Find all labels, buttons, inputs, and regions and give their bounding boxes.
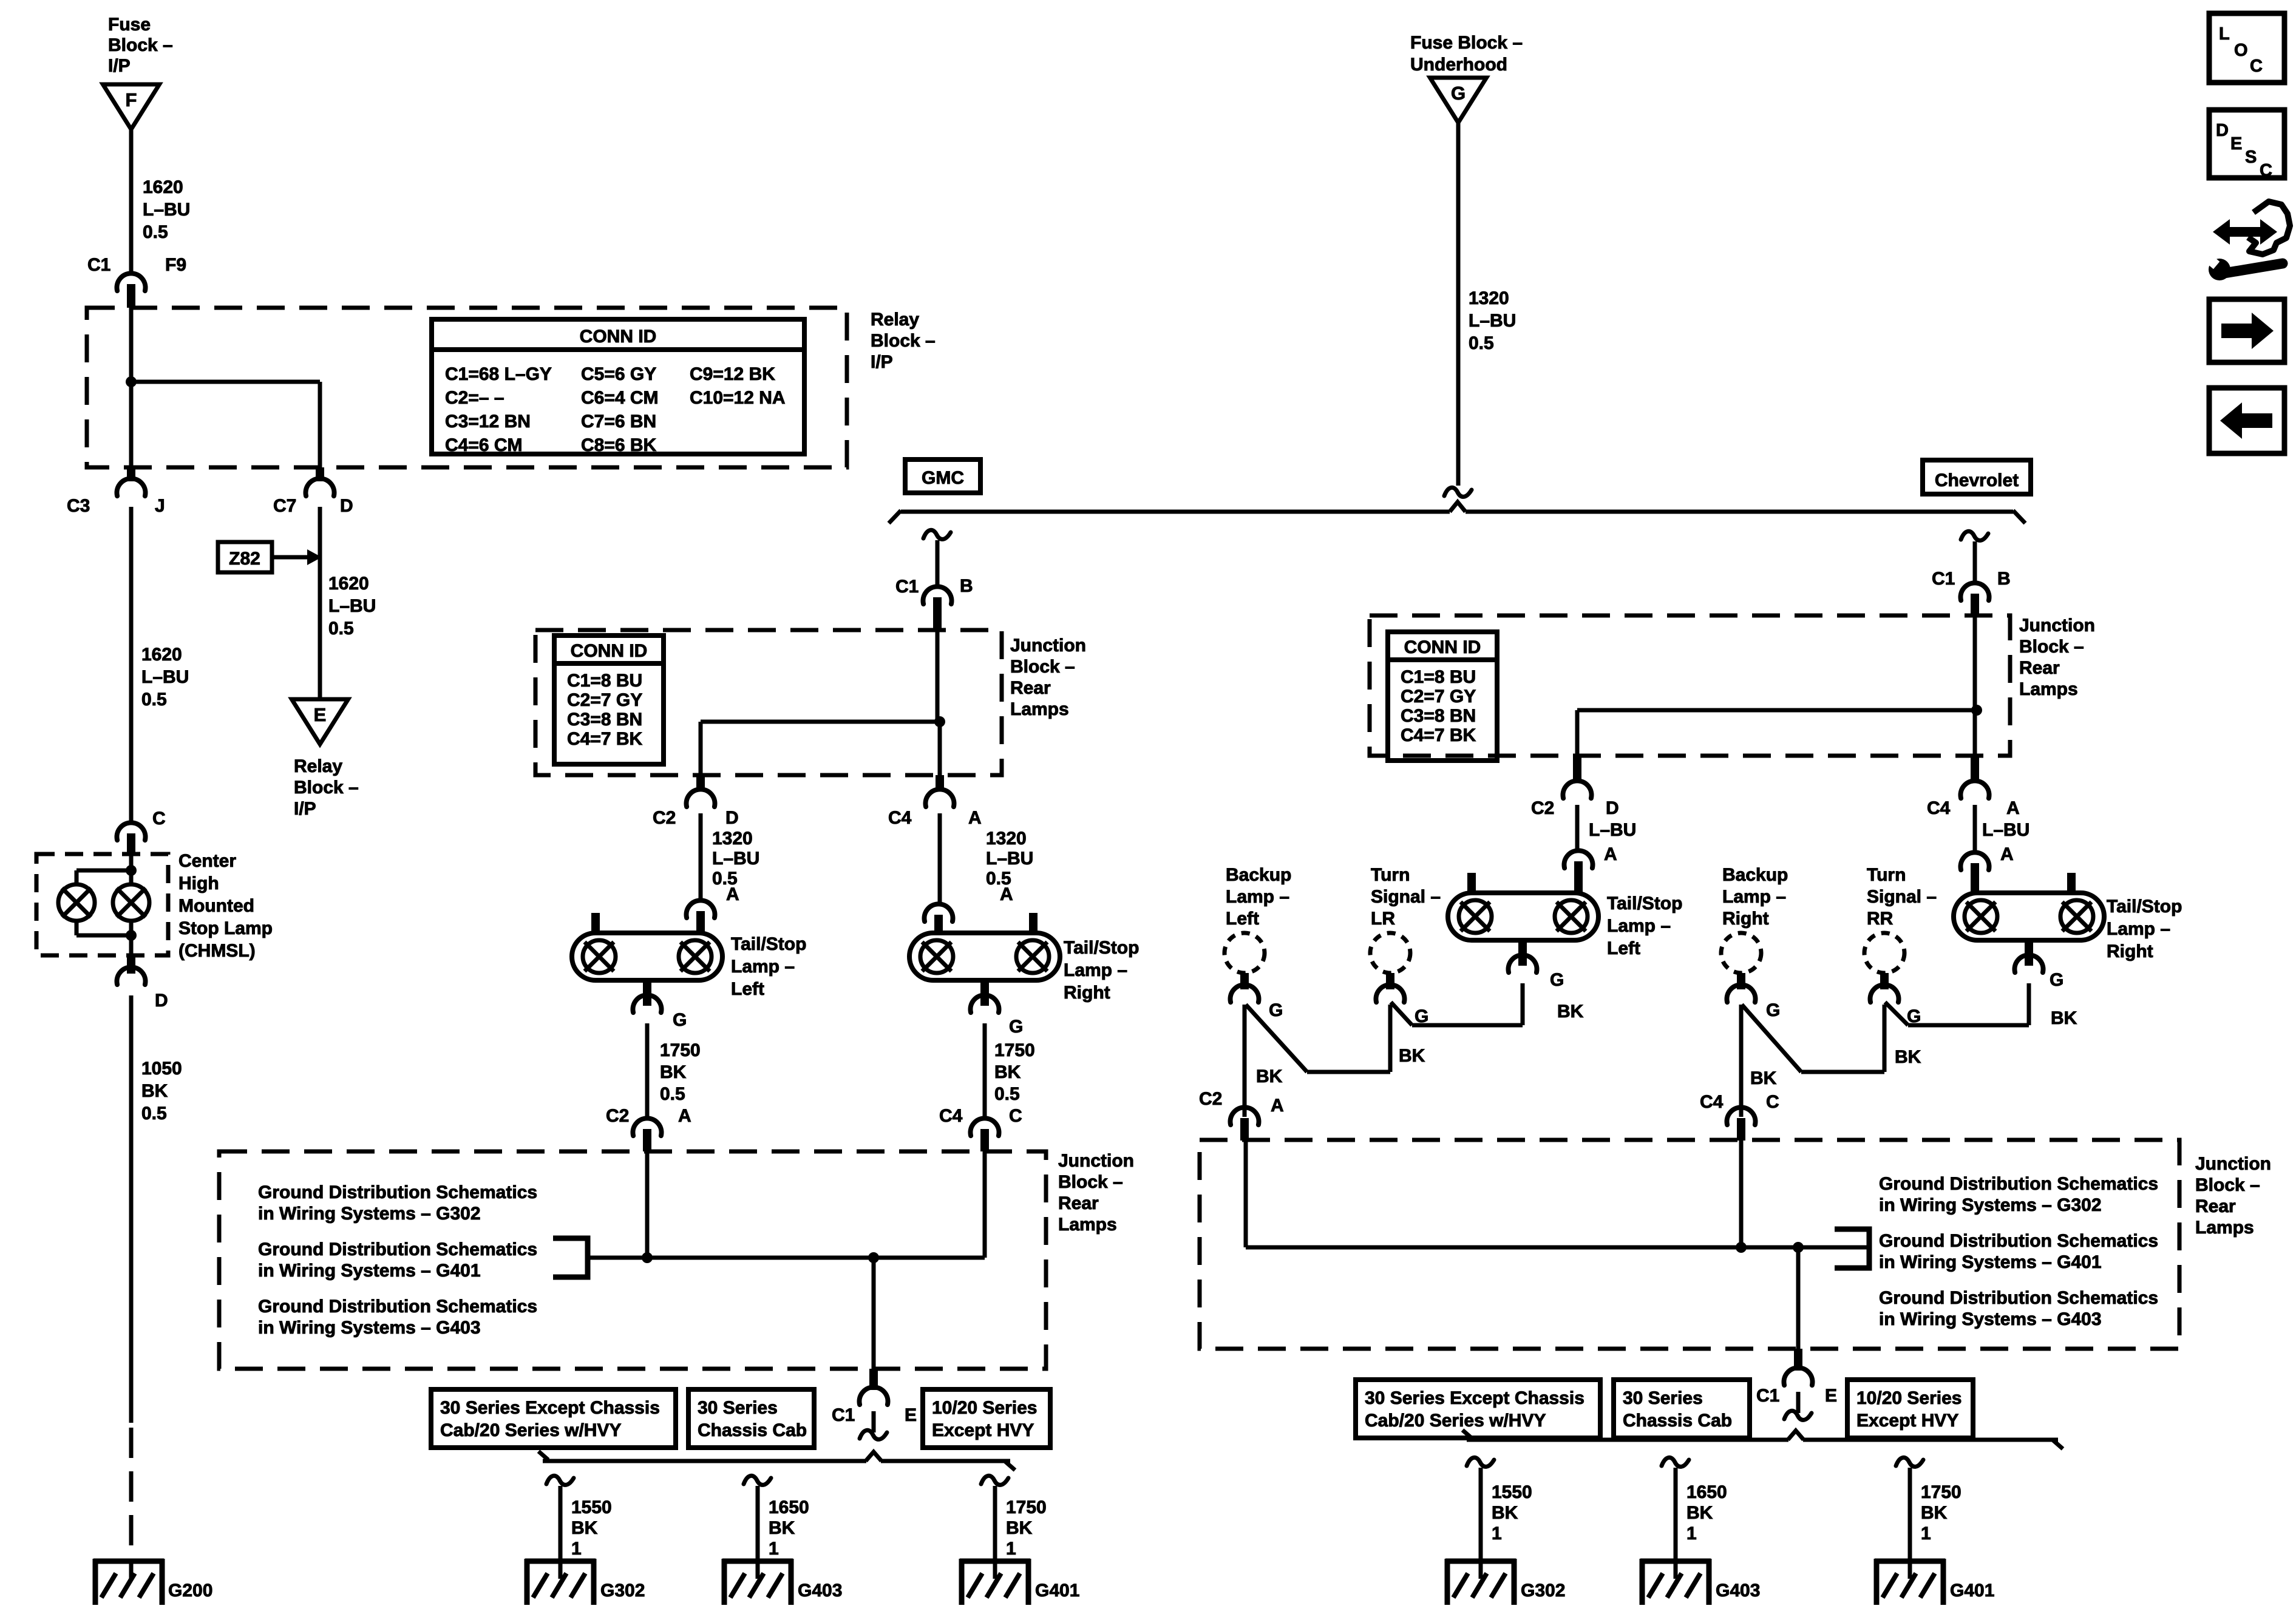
svg-text:BK: BK [571, 1518, 598, 1538]
svg-text:O: O [2234, 41, 2248, 60]
svg-text:1750: 1750 [660, 1040, 701, 1060]
svg-text:Lamps: Lamps [1010, 699, 1069, 719]
svg-text:E: E [314, 704, 327, 725]
svg-text:G302: G302 [1521, 1581, 1565, 1601]
svg-text:Right: Right [1722, 909, 1769, 929]
svg-text:Ground Distribution Schematics: Ground Distribution Schematics [1879, 1231, 2158, 1251]
svg-text:G200: G200 [168, 1581, 212, 1601]
svg-text:BK: BK [141, 1081, 168, 1101]
svg-text:Ground Distribution Schematics: Ground Distribution Schematics [258, 1182, 537, 1202]
svg-text:I/P: I/P [871, 352, 893, 372]
svg-text:1: 1 [1921, 1524, 1931, 1544]
svg-text:C4: C4 [888, 808, 912, 828]
svg-text:Fuse: Fuse [108, 15, 151, 35]
svg-text:Rear: Rear [2019, 658, 2060, 678]
svg-text:1650: 1650 [1686, 1482, 1727, 1502]
svg-text:G: G [1766, 1000, 1780, 1020]
svg-text:L–BU: L–BU [328, 596, 376, 616]
svg-text:A: A [678, 1106, 691, 1126]
svg-text:C: C [2260, 161, 2272, 180]
svg-text:E: E [2230, 134, 2242, 154]
svg-text:Block –: Block – [871, 331, 936, 351]
svg-text:C7: C7 [273, 496, 296, 516]
svg-text:A: A [968, 808, 982, 828]
svg-text:I/P: I/P [294, 799, 316, 819]
svg-text:0.5: 0.5 [141, 1103, 167, 1124]
svg-text:C2=7 GY: C2=7 GY [567, 690, 642, 710]
svg-text:C3=12 BN: C3=12 BN [445, 412, 531, 432]
svg-text:C10=12 NA: C10=12 NA [690, 388, 786, 408]
svg-text:Signal –: Signal – [1371, 887, 1441, 907]
svg-text:C9=12 BK: C9=12 BK [690, 364, 775, 384]
svg-text:Tail/Stop: Tail/Stop [2107, 897, 2182, 917]
svg-text:C2: C2 [1199, 1089, 1222, 1109]
svg-text:Ground Distribution Schematics: Ground Distribution Schematics [1879, 1288, 2158, 1308]
svg-text:Lamp –: Lamp – [1607, 916, 1671, 936]
svg-text:Block –: Block – [108, 35, 173, 55]
svg-text:Fuse Block –: Fuse Block – [1410, 33, 1523, 53]
svg-text:Block –: Block – [1058, 1172, 1123, 1192]
svg-text:C8=6 BK: C8=6 BK [581, 435, 657, 455]
svg-text:1320: 1320 [986, 829, 1027, 849]
svg-text:F: F [126, 89, 137, 110]
svg-text:C2=7 GY: C2=7 GY [1401, 686, 1476, 707]
svg-text:1320: 1320 [712, 829, 753, 849]
svg-text:A: A [1000, 884, 1013, 904]
svg-text:C3=8 BN: C3=8 BN [567, 710, 642, 730]
svg-text:G: G [673, 1010, 687, 1030]
svg-text:Chassis Cab: Chassis Cab [1623, 1411, 1732, 1431]
svg-text:C: C [2250, 56, 2263, 76]
svg-text:Except HVY: Except HVY [932, 1420, 1034, 1440]
svg-text:C1: C1 [1932, 569, 1955, 589]
svg-text:Lamps: Lamps [1058, 1215, 1117, 1235]
svg-text:LR: LR [1371, 909, 1395, 929]
svg-text:C1=68 L–GY: C1=68 L–GY [445, 364, 552, 384]
svg-text:1750: 1750 [1006, 1497, 1047, 1517]
svg-text:L–BU: L–BU [986, 849, 1033, 869]
svg-text:Left: Left [731, 979, 764, 999]
svg-text:A: A [1604, 844, 1617, 864]
svg-text:G: G [1451, 83, 1466, 104]
svg-text:D: D [1606, 798, 1619, 818]
svg-text:Turn: Turn [1867, 865, 1906, 885]
svg-text:0.5: 0.5 [328, 619, 354, 639]
svg-text:BK: BK [1750, 1068, 1777, 1088]
svg-text:L: L [2219, 24, 2230, 44]
svg-text:Junction: Junction [2195, 1154, 2271, 1174]
svg-text:1320: 1320 [1469, 288, 1509, 308]
svg-text:BK: BK [1686, 1503, 1713, 1523]
svg-text:L–BU: L–BU [1982, 820, 2029, 840]
svg-text:C2: C2 [606, 1106, 629, 1126]
svg-text:10/20 Series: 10/20 Series [1856, 1388, 1961, 1408]
svg-text:C2: C2 [1531, 798, 1554, 818]
svg-text:Left: Left [1226, 909, 1259, 929]
svg-text:Block –: Block – [294, 778, 359, 798]
svg-text:Relay: Relay [871, 310, 919, 330]
svg-text:G403: G403 [1716, 1581, 1760, 1601]
svg-text:Relay: Relay [294, 756, 342, 776]
svg-text:1550: 1550 [1492, 1482, 1532, 1502]
svg-text:C3=8 BN: C3=8 BN [1401, 706, 1476, 726]
svg-text:L–BU: L–BU [1589, 820, 1636, 840]
svg-text:Rear: Rear [2195, 1196, 2236, 1216]
svg-text:0.5: 0.5 [143, 222, 168, 242]
svg-text:0.5: 0.5 [1469, 333, 1494, 353]
svg-text:Z82: Z82 [229, 549, 260, 569]
svg-text:Mounted: Mounted [178, 896, 254, 916]
svg-text:1750: 1750 [1921, 1482, 1961, 1502]
svg-text:Chevrolet: Chevrolet [1935, 470, 2019, 490]
svg-text:BK: BK [2051, 1008, 2077, 1028]
svg-text:C1=8 BU: C1=8 BU [1401, 667, 1476, 687]
svg-text:Signal –: Signal – [1867, 887, 1937, 907]
svg-text:C: C [152, 808, 166, 829]
svg-text:C4=7 BK: C4=7 BK [1401, 725, 1476, 745]
svg-text:Right: Right [2107, 941, 2153, 961]
svg-text:1: 1 [1492, 1524, 1502, 1544]
svg-text:G401: G401 [1950, 1581, 1994, 1601]
svg-text:1: 1 [1006, 1539, 1016, 1559]
svg-text:A: A [1271, 1096, 1284, 1116]
svg-text:in Wiring Systems – G401: in Wiring Systems – G401 [1879, 1252, 2102, 1272]
svg-text:in Wiring Systems – G302: in Wiring Systems – G302 [1879, 1195, 2102, 1215]
svg-text:1750: 1750 [994, 1040, 1035, 1060]
svg-text:A: A [2000, 844, 2014, 864]
svg-text:BK: BK [660, 1062, 687, 1082]
svg-text:D: D [725, 808, 739, 828]
svg-text:Rear: Rear [1058, 1193, 1099, 1213]
svg-text:Block –: Block – [2195, 1175, 2260, 1195]
svg-text:G: G [1550, 970, 1564, 990]
svg-text:C4: C4 [1700, 1092, 1724, 1112]
svg-text:L–BU: L–BU [141, 667, 189, 687]
svg-text:D: D [2216, 121, 2229, 140]
svg-text:F9: F9 [165, 255, 186, 275]
svg-text:1: 1 [1686, 1524, 1697, 1544]
svg-text:30 Series: 30 Series [698, 1398, 778, 1418]
svg-text:A: A [2006, 798, 2020, 818]
svg-text:L–BU: L–BU [712, 849, 759, 869]
svg-text:1620: 1620 [328, 574, 369, 594]
svg-text:Cab/20 Series w/HVY: Cab/20 Series w/HVY [1365, 1411, 1546, 1431]
svg-text:Turn: Turn [1371, 865, 1410, 885]
svg-text:Center: Center [178, 851, 236, 871]
svg-text:G: G [1269, 1000, 1283, 1020]
svg-text:D: D [340, 496, 353, 516]
svg-text:G: G [2050, 970, 2063, 990]
svg-text:A: A [726, 884, 739, 904]
svg-text:RR: RR [1867, 909, 1894, 929]
svg-text:Junction: Junction [2019, 615, 2095, 636]
svg-text:Ground Distribution Schematics: Ground Distribution Schematics [258, 1297, 537, 1317]
svg-text:CONN ID: CONN ID [1404, 637, 1481, 657]
svg-text:C1: C1 [1756, 1386, 1779, 1406]
svg-text:E: E [1825, 1386, 1837, 1406]
svg-text:C3: C3 [67, 496, 90, 516]
svg-text:G: G [1009, 1017, 1023, 1037]
svg-text:1050: 1050 [141, 1059, 182, 1079]
svg-text:Block –: Block – [1010, 657, 1075, 677]
svg-text:1620: 1620 [143, 177, 183, 197]
svg-text:Junction: Junction [1058, 1151, 1134, 1171]
svg-text:10/20 Series: 10/20 Series [932, 1398, 1037, 1418]
svg-text:CONN ID: CONN ID [580, 327, 657, 347]
svg-text:Except HVY: Except HVY [1856, 1411, 1958, 1431]
svg-text:0.5: 0.5 [994, 1084, 1020, 1104]
svg-text:BK: BK [1492, 1503, 1518, 1523]
svg-text:C6=4 CM: C6=4 CM [581, 388, 659, 408]
svg-text:Lamp –: Lamp – [1722, 887, 1786, 907]
svg-text:Lamps: Lamps [2019, 679, 2078, 699]
svg-text:CONN ID: CONN ID [571, 641, 648, 661]
svg-text:Underhood: Underhood [1410, 55, 1507, 75]
svg-text:Tail/Stop: Tail/Stop [1064, 938, 1139, 958]
svg-text:B: B [960, 576, 973, 596]
svg-text:I/P: I/P [108, 56, 131, 76]
svg-text:1650: 1650 [769, 1497, 809, 1517]
svg-text:30 Series: 30 Series [1623, 1388, 1703, 1408]
svg-text:Ground Distribution Schematics: Ground Distribution Schematics [258, 1239, 537, 1259]
svg-text:1620: 1620 [141, 645, 182, 665]
svg-text:C1=8 BU: C1=8 BU [567, 671, 642, 691]
svg-text:Right: Right [1064, 983, 1110, 1003]
svg-text:1: 1 [571, 1539, 582, 1559]
svg-text:Backup: Backup [1722, 865, 1788, 885]
svg-text:0.5: 0.5 [660, 1084, 685, 1104]
svg-text:Lamp –: Lamp – [2107, 919, 2170, 939]
svg-text:C2=– –: C2=– – [445, 388, 504, 408]
svg-text:C7=6 BN: C7=6 BN [581, 412, 656, 432]
svg-text:Left: Left [1607, 938, 1640, 958]
svg-text:C4=6 CM: C4=6 CM [445, 435, 523, 455]
svg-text:G302: G302 [600, 1581, 645, 1601]
svg-text:Tail/Stop: Tail/Stop [731, 934, 806, 954]
svg-text:Lamp –: Lamp – [1064, 960, 1127, 980]
svg-text:BK: BK [994, 1062, 1021, 1082]
svg-text:BK: BK [1399, 1046, 1425, 1066]
svg-text:High: High [178, 873, 219, 893]
svg-text:E: E [905, 1405, 917, 1425]
svg-text:BK: BK [1895, 1047, 1921, 1067]
svg-text:Ground Distribution Schematics: Ground Distribution Schematics [1879, 1174, 2158, 1194]
svg-text:Junction: Junction [1010, 636, 1086, 656]
svg-text:C4=7 BK: C4=7 BK [567, 729, 643, 749]
svg-text:1550: 1550 [571, 1497, 612, 1517]
svg-text:Lamp –: Lamp – [1226, 887, 1289, 907]
svg-text:BK: BK [1006, 1518, 1033, 1538]
svg-text:30 Series Except Chassis: 30 Series Except Chassis [1365, 1388, 1584, 1408]
svg-text:G403: G403 [798, 1581, 842, 1601]
svg-text:C: C [1009, 1106, 1022, 1126]
svg-text:J: J [155, 496, 165, 516]
svg-text:Backup: Backup [1226, 865, 1291, 885]
svg-text:C1: C1 [87, 255, 110, 275]
svg-text:30 Series Except Chassis: 30 Series Except Chassis [440, 1398, 660, 1418]
svg-text:C5=6 GY: C5=6 GY [581, 364, 656, 384]
svg-text:Lamps: Lamps [2195, 1218, 2254, 1238]
svg-text:BK: BK [1921, 1503, 1948, 1523]
svg-text:D: D [155, 991, 168, 1011]
svg-text:0.5: 0.5 [141, 690, 167, 710]
svg-text:Lamp –: Lamp – [731, 957, 795, 977]
svg-text:BK: BK [1557, 1002, 1584, 1022]
svg-text:G401: G401 [1035, 1581, 1079, 1601]
svg-text:L–BU: L–BU [143, 200, 190, 220]
svg-text:BK: BK [1256, 1066, 1283, 1086]
svg-text:S: S [2245, 147, 2257, 167]
svg-text:C1: C1 [895, 577, 919, 597]
svg-text:(CHMSL): (CHMSL) [178, 941, 256, 961]
svg-text:Chassis Cab: Chassis Cab [698, 1420, 807, 1440]
svg-text:C1: C1 [832, 1405, 855, 1425]
svg-text:Tail/Stop: Tail/Stop [1607, 893, 1682, 914]
svg-text:in Wiring Systems – G403: in Wiring Systems – G403 [1879, 1309, 2102, 1329]
svg-text:C2: C2 [653, 808, 676, 828]
svg-text:1: 1 [769, 1539, 779, 1559]
svg-text:C4: C4 [1927, 798, 1951, 818]
svg-text:in Wiring Systems – G302: in Wiring Systems – G302 [258, 1204, 481, 1224]
svg-text:Block –: Block – [2019, 637, 2084, 657]
svg-text:Rear: Rear [1010, 678, 1051, 698]
svg-text:Cab/20 Series w/HVY: Cab/20 Series w/HVY [440, 1420, 621, 1440]
svg-text:GMC: GMC [922, 468, 964, 488]
svg-text:in Wiring Systems – G403: in Wiring Systems – G403 [258, 1318, 481, 1338]
svg-text:BK: BK [769, 1518, 795, 1538]
svg-text:C: C [1766, 1092, 1779, 1112]
svg-text:Stop Lamp: Stop Lamp [178, 918, 273, 938]
svg-text:L–BU: L–BU [1469, 311, 1516, 331]
svg-text:B: B [1997, 569, 2011, 589]
svg-text:C4: C4 [939, 1106, 963, 1126]
svg-text:in Wiring Systems – G401: in Wiring Systems – G401 [258, 1261, 481, 1281]
